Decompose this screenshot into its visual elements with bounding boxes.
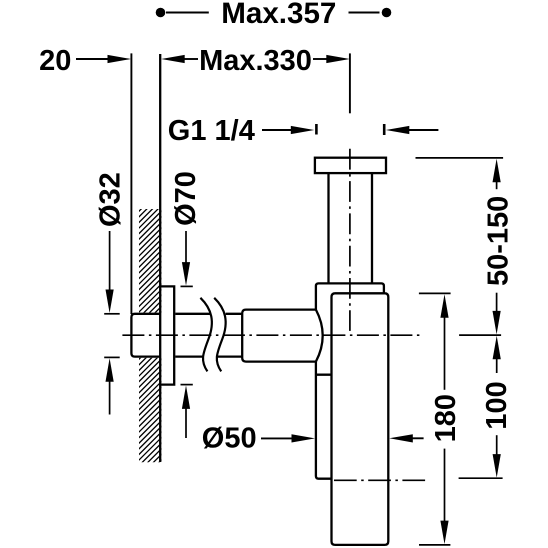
sleeve left edge	[316, 362, 332, 479]
dim O32	[94, 172, 126, 414]
extension line pipe end	[130, 53, 132, 314]
svg-text:50-150: 50-150	[483, 196, 515, 286]
top flange rosette	[315, 158, 386, 173]
elbow dome arc	[316, 310, 323, 362]
svg-text:Ø50: Ø50	[202, 423, 257, 455]
dim Max.357	[156, 0, 392, 30]
svg-text:G1 1/4: G1 1/4	[168, 115, 255, 147]
dim Max.330	[161, 45, 350, 77]
dim O50	[202, 423, 424, 455]
pipe compression nut	[242, 310, 316, 362]
svg-text:20: 20	[39, 45, 71, 77]
extension line drain axis	[349, 53, 351, 113]
wall pipe white fill	[133, 315, 175, 355]
dim 180	[419, 293, 462, 545]
sleeve connector	[316, 374, 333, 376]
trap body	[332, 293, 389, 545]
small pipe segment after break	[226, 313, 243, 315]
escutcheon wall flange	[160, 286, 174, 384]
body nut top collar	[316, 283, 384, 309]
dim 20	[39, 45, 131, 77]
centerline pipe horizontal	[122, 334, 422, 336]
svg-text:Max.357: Max.357	[221, 0, 336, 30]
svg-text:180: 180	[430, 394, 462, 442]
wall face line	[159, 54, 161, 462]
svg-text:Ø32: Ø32	[94, 172, 126, 227]
wall hatch	[126, 168, 171, 507]
small pipe through wall	[131, 314, 159, 357]
centerline drain vertical	[349, 149, 351, 331]
centerline body bottom	[334, 479, 425, 481]
dim 100	[459, 336, 513, 478]
dim 50-150	[416, 158, 515, 335]
pipe break symbol	[200, 298, 225, 372]
svg-text:Ø70: Ø70	[170, 171, 202, 226]
dim O70	[170, 171, 202, 438]
dim G1 1/4	[168, 115, 439, 147]
small pipe segment to break	[175, 313, 210, 315]
svg-text:100: 100	[481, 381, 513, 429]
tailpiece pipe	[327, 173, 329, 283]
svg-text:Max.330: Max.330	[199, 45, 312, 77]
